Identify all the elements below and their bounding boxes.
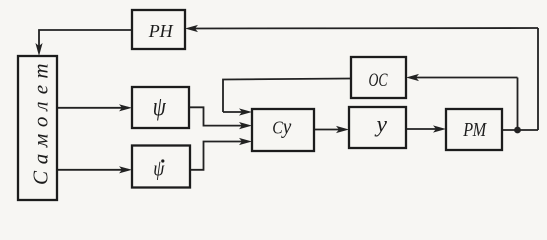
svg-text:ψ: ψ xyxy=(153,156,164,181)
svg-text:ОС: ОС xyxy=(369,70,388,91)
svg-text:РМ: РМ xyxy=(462,119,487,141)
svg-text:у: у xyxy=(374,112,387,138)
svg-text:Самолет: Самолет xyxy=(29,57,53,185)
svg-text:ψ: ψ xyxy=(153,92,167,121)
svg-text:Су: Су xyxy=(272,114,291,139)
svg-text:РН: РН xyxy=(148,21,174,41)
